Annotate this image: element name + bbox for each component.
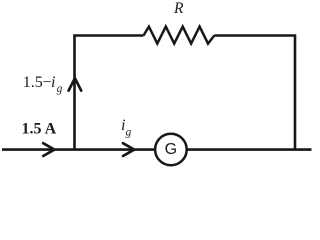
arrowhead : 1.5 - i_g current arrow on left vertical wire (pointing up) bbox=[69, 78, 82, 90]
svg-text:1.5 A: 1.5 A bbox=[22, 120, 57, 137]
wire : top-left loop (left vertical + top wire left segment) bbox=[75, 36, 144, 150]
wire : top wire right segment + right vertical bbox=[214, 36, 295, 150]
svg-text:R: R bbox=[173, 0, 184, 17]
wire : bottom wire left of galvanometer bbox=[2, 148, 155, 151]
wire : bottom wire right of galvanometer bbox=[188, 148, 312, 151]
svg-text:ig: ig bbox=[121, 117, 131, 139]
galvanometer G circle bbox=[155, 134, 187, 166]
arrowhead : i_g current arrow on bottom wire bbox=[123, 143, 134, 156]
arrowhead : 1.5 A current arrow on bottom wire bbox=[43, 143, 54, 156]
resistor R (zigzag) bbox=[144, 27, 215, 44]
svg-text:G: G bbox=[165, 141, 177, 158]
svg-text:1.5−ig: 1.5−ig bbox=[23, 74, 63, 95]
